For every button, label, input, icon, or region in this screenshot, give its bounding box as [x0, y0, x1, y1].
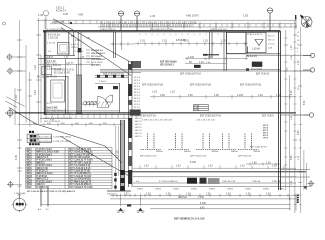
svg-text:TW 0.5x1: TW 0.5x1: [107, 193, 117, 195]
svg-text:VCB2-6 0.33 1.20: VCB2-6 0.33 1.20: [210, 29, 227, 31]
svg-text:VCT 0.5x0.33 A.BA x2: VCT 0.5x0.33 A.BA x2: [69, 151, 93, 154]
svg-text:VCT 7F-10F 0.33 (2): VCT 7F-10F 0.33 (2): [69, 157, 90, 159]
svg-text:1.63 0.33: 1.63 0.33: [48, 37, 59, 40]
dim line y43.5 ticks: [110, 42, 135, 46]
building top edge: [43, 31, 280, 32]
svg-text:WB2x6: WB2x6: [254, 151, 262, 153]
center wall lower right pair: [128, 115, 132, 187]
svg-text:5.46: 5.46: [291, 155, 293, 160]
dim line y96.8: [150, 95, 296, 99]
svg-text:1.60: 1.60: [214, 94, 219, 97]
building interior bottom line: [122, 171, 306, 173]
svg-text:VCT 0.33x0.5 7F A.BA: VCT 0.33x0.5 7F A.BA: [69, 186, 93, 189]
svg-text:1.33 1.26 1.33 1.20: 1.33 1.26 1.33 1.20: [196, 120, 216, 122]
svg-text:B2F VCB2-6VCF-(5): B2F VCB2-6VCF-(5): [240, 85, 261, 87]
svg-text:B2F VCB2-6VCF: B2F VCB2-6VCF: [250, 147, 267, 149]
svg-text:P-VCB 1.5: P-VCB 1.5: [37, 187, 49, 189]
corner line y191: [107, 190, 131, 192]
row of text under y71 line: [103, 74, 270, 76]
svg-text:SK 1.3: SK 1.3: [268, 40, 275, 42]
svg-text:B2F VCB2-6VCF-(5): B2F VCB2-6VCF-(5): [190, 85, 211, 87]
parking stall divider pair 3: [196, 134, 217, 150]
fixture blocks y87: [98, 86, 103, 89]
inner wall verticals: [65, 59, 67, 81]
hatch slashes near arcs: [85, 102, 112, 107]
bottom dim ticks: [113, 194, 296, 211]
building left wall: [44, 31, 46, 115]
svg-text:WC9: WC9: [27, 171, 33, 173]
svg-text:WC 1.5x0.33 MW-0.5 P-VCB 1.5 (: WC 1.5x0.33 MW-0.5 P-VCB 1.5 (7F-10F) A.…: [27, 190, 76, 193]
svg-text:5.195: 5.195: [200, 203, 206, 205]
svg-text:TWD1: TWD1: [245, 188, 252, 190]
svg-text:MW-0.5 1.5x0.5: MW-0.5 1.5x0.5: [37, 173, 54, 175]
main finish table: [26, 148, 112, 189]
svg-text:TWD1: TWD1: [227, 188, 234, 190]
text row above stubs: [142, 120, 216, 122]
svg-text:VCT 1.5x0.33 MW (2): VCT 1.5x0.33 MW (2): [69, 184, 92, 186]
svg-text:B2F VCB2-6VCF-(5): B2F VCB2-6VCF-(5): [142, 85, 163, 87]
svg-text:5.195: 5.195: [190, 162, 196, 164]
right wall: [279, 31, 281, 190]
small filled door rect: [194, 65, 201, 68]
svg-text:P-VCB 1.5x0.5: P-VCB 1.5x0.5: [37, 160, 53, 162]
parking stall divider pair 4: [216, 134, 237, 150]
svg-text:1.20 45: 1.20 45: [66, 63, 74, 65]
svg-text:1.33: 1.33: [170, 91, 175, 94]
svg-text:2.40: 2.40: [298, 130, 300, 135]
svg-text:1.33: 1.33: [272, 166, 277, 168]
svg-text:VCT 1.5x0.33 0.5 (2): VCT 1.5x0.33 0.5 (2): [69, 168, 91, 170]
text rows under upper-left block: [37, 69, 74, 79]
svg-text:TWD-18 VCB: TWD-18 VCB: [222, 181, 236, 183]
svg-text:1.04: 1.04: [199, 61, 204, 64]
grid bubble left C: [5, 108, 15, 118]
svg-text:1.33: 1.33: [166, 194, 171, 196]
long diagonal D2b: [60, 136, 129, 176]
svg-text:B1 KDS-0.6: B1 KDS-0.6: [91, 50, 104, 52]
middle horizontal line y71: [100, 70, 312, 72]
parking stall divider pair 2: [169, 134, 190, 150]
svg-text:1F 2.4: 1F 2.4: [134, 77, 141, 79]
far left tiny bubble: [3, 22, 6, 25]
svg-text:1.33: 1.33: [186, 194, 191, 196]
svg-text:2.625 1.05: 2.625 1.05: [52, 20, 65, 24]
svg-text:1.5 0.3: 1.5 0.3: [268, 44, 275, 46]
svg-text:VD2-25 NO.2: VD2-25 NO.2: [160, 65, 175, 67]
svg-text:8.40: 8.40: [200, 207, 205, 209]
wall block column x114: [114, 173, 117, 176]
svg-text:B2F VCB-6: B2F VCB-6: [262, 116, 274, 118]
svg-text:P-VCB 1.5x0.5: P-VCB 1.5x0.5: [37, 181, 53, 183]
svg-text:140 2.4: 140 2.4: [135, 130, 143, 132]
svg-text:1.80: 1.80: [252, 162, 257, 164]
svg-text:TWD1: TWD1: [278, 188, 285, 190]
svg-text:KD-8 25x25: KD-8 25x25: [91, 62, 103, 64]
svg-text:A2 0.33 FCx2: A2 0.33 FCx2: [39, 140, 53, 143]
svg-text:B2F VCB2-6VCF-18: B2F VCB2-6VCF-18: [200, 116, 222, 118]
svg-text:MW-0.5 1.5: MW-0.5 1.5: [37, 157, 50, 159]
svg-text:1.33: 1.33: [15, 95, 18, 100]
tick row under top edge mid: [140, 34, 218, 36]
dim line y42 with ticks: [135, 42, 248, 46]
north compass: [301, 17, 312, 28]
svg-text:7F 2.4: 7F 2.4: [134, 95, 141, 97]
svg-text:P-VCB 1.5x0.5: P-VCB 1.5x0.5: [37, 149, 53, 151]
svg-text:WCC: WCC: [27, 179, 33, 181]
counter column: [297, 32, 300, 54]
svg-text:1.40: 1.40: [258, 94, 263, 97]
svg-text:H 0.8: H 0.8: [194, 109, 198, 111]
svg-text:3F 2.4: 3F 2.4: [134, 83, 141, 85]
svg-text:( 1.5W ) 7F-10F(2): ( 1.5W ) 7F-10F(2): [53, 141, 71, 143]
svg-text:1.20: 1.20: [34, 65, 37, 70]
right chain dense ticks: [284, 38, 302, 205]
svg-text:TWD1: TWD1: [155, 188, 162, 190]
svg-text:VCT 1.5x0.33 7F-10F: VCT 1.5x0.33 7F-10F: [69, 176, 92, 178]
svg-text:8F 2.4: 8F 2.4: [134, 98, 141, 100]
dark sump block: [252, 62, 262, 67]
finish table header box: [27, 134, 51, 142]
svg-text:2.40: 2.40: [208, 56, 213, 59]
svg-text:TWD1: TWD1: [191, 188, 198, 190]
svg-text:4.05: 4.05: [291, 90, 293, 95]
grid bubble right A: [303, 53, 315, 57]
svg-text:2.40: 2.40: [34, 90, 37, 95]
upper-middle wall pair 1: [210, 32, 213, 58]
svg-text:1.33: 1.33: [203, 39, 208, 42]
bold tick left of compass: [295, 15, 297, 20]
fixture wall y76: [95, 76, 128, 78]
dim rows upper middle: [185, 57, 248, 64]
big door arc: [98, 97, 109, 108]
svg-text:8.40: 8.40: [304, 100, 306, 105]
text row above building edge: [47, 29, 227, 31]
upper-middle room 2 with triangle: [246, 33, 266, 53]
svg-text:FD 1.5x0.5: FD 1.5x0.5: [91, 56, 103, 58]
text under y113 line: [47, 111, 274, 118]
dense annotation column center-left: [91, 50, 106, 61]
svg-text:2.60: 2.60: [188, 94, 193, 97]
svg-text:1.33: 1.33: [266, 194, 271, 196]
wall dark blocks x120: [120, 170, 124, 175]
grid bubble left E: [7, 181, 22, 188]
svg-text:TWD1: TWD1: [209, 188, 216, 190]
svg-text:140 2.4: 140 2.4: [135, 127, 143, 129]
svg-text:0.5x1.5: 0.5x1.5: [71, 44, 79, 46]
svg-text:1.33: 1.33: [208, 166, 213, 168]
compass arrow: [300, 15, 304, 19]
center wall column upper: [128, 62, 132, 116]
grid bubble right D: [308, 180, 315, 187]
short diagonal A: [6, 97, 24, 107]
lower-left room rect: [51, 80, 65, 102]
survey stamp circle: [12, 196, 28, 212]
left end drop lines: [41, 186, 49, 207]
svg-text:1.33: 1.33: [226, 194, 231, 196]
svg-text:VCT 1.5x0.33 7F-10F: VCT 1.5x0.33 7F-10F: [69, 149, 92, 151]
svg-text:240 1.20: 240 1.20: [46, 63, 55, 65]
svg-text:WCA: WCA: [27, 172, 33, 175]
parking stall divider pair 5: [238, 134, 259, 150]
faint label row mid parking: [140, 156, 252, 158]
leader arrow dot: [70, 22, 72, 24]
svg-text:TWD-18: TWD-18: [272, 181, 281, 183]
lower-left walls: [46, 76, 68, 114]
svg-text:VD2 NO.5: VD2 NO.5: [91, 65, 102, 67]
room box left wall: [42, 67, 52, 75]
right extra chain lines: [304, 150, 307, 190]
svg-text:1.33: 1.33: [162, 39, 167, 42]
svg-text:( 1.5W ) 7F-10F(2): ( 1.5W ) 7F-10F(2): [53, 137, 71, 139]
bottom band lines: [133, 177, 296, 187]
top dimension tick row: [45, 13, 296, 31]
svg-text:1.33: 1.33: [146, 194, 151, 196]
svg-text:1.26: 1.26: [266, 162, 271, 164]
svg-text:VCB2-6 0.33 1.5: VCB2-6 0.33 1.5: [247, 34, 263, 36]
svg-text:140 2.4: 140 2.4: [135, 124, 143, 126]
top dimension lines: [37, 20, 296, 27]
center wall lower left pair: [121, 120, 125, 191]
door arcs scallops: [83, 101, 97, 104]
TWD labels row: [136, 181, 285, 191]
svg-text:WC2: WC2: [27, 152, 33, 154]
major grid line y113: [15, 112, 296, 114]
svg-text:MW-0.5: MW-0.5: [37, 184, 46, 186]
svg-text:2.60: 2.60: [160, 94, 165, 97]
svg-text:1.163: 1.163: [188, 56, 195, 59]
grid bubble right C: [303, 113, 314, 117]
svg-text:WB2x6: WB2x6: [184, 151, 192, 153]
svg-text:VCT MW 0.5x0.33 7F: VCT MW 0.5x0.33 7F: [69, 181, 92, 183]
svg-text:1.33: 1.33: [184, 39, 189, 42]
grid bubble top A: [43, 11, 48, 31]
line y64.3: [38, 63, 100, 66]
diagonal leader D1a: [53, 19, 133, 64]
bottom grid marker 1: [117, 208, 125, 213]
table top dim line: [22, 123, 122, 126]
svg-text:MW-0.5 (2): MW-0.5 (2): [37, 168, 49, 170]
finish table label 1: [29, 131, 31, 133]
svg-text:P-VCB 1.5x0.5: P-VCB 1.5x0.5: [37, 165, 53, 167]
svg-text:1.33: 1.33: [152, 91, 157, 94]
svg-text:5F 2.4: 5F 2.4: [134, 89, 141, 91]
wall x119.5: [119, 83, 121, 113]
svg-text:TWD1: TWD1: [137, 188, 144, 190]
divider labels: [156, 151, 261, 153]
svg-text:WCB: WCB: [27, 176, 33, 178]
svg-text:0.33 1.5: 0.33 1.5: [56, 8, 65, 10]
svg-text:0.30: 0.30: [63, 12, 69, 16]
svg-text:WC3: WC3: [27, 154, 33, 156]
svg-text:VCB2-6 1.33 0.5: VCB2-6 1.33 0.5: [100, 29, 116, 31]
svg-text:6F 2.4: 6F 2.4: [134, 92, 141, 94]
svg-text:1.33: 1.33: [298, 60, 300, 65]
svg-text:VCT 1.5x0.5 7F-10F x1: VCT 1.5x0.5 7F-10F x1: [69, 154, 94, 156]
upper-left annotation text: [47, 34, 80, 72]
svg-text:SEKISAI: SEKISAI: [178, 196, 187, 199]
svg-text:KAKU SUI 1.5x0.33 VCB 0.5: KAKU SUI 1.5x0.33 VCB 0.5: [44, 117, 73, 120]
svg-text:VD2-25xNO.5: VD2-25xNO.5: [91, 59, 106, 61]
svg-text:1.33: 1.33: [206, 194, 211, 196]
svg-text:140 2.4: 140 2.4: [135, 136, 143, 138]
vertical list text center: [135, 118, 143, 138]
svg-text:P-VCB (2): P-VCB (2): [37, 176, 48, 178]
bottom dimension lines: [41, 195, 296, 209]
svg-text:4.83: 4.83: [78, 13, 84, 17]
small table mid: [194, 105, 209, 111]
svg-text:1.33: 1.33: [38, 13, 44, 17]
svg-text:MW-0.5 1.5: MW-0.5 1.5: [37, 179, 50, 181]
svg-text:4.05: 4.05: [15, 155, 18, 160]
parking stall divider pair 1: [141, 134, 162, 150]
svg-text:1.62+M: 1.62+M: [252, 49, 260, 51]
upper wall x78-81: [78, 32, 81, 75]
line y53.8: [226, 53, 280, 55]
grid bubble left A: [6, 54, 26, 61]
svg-text:TWD1: TWD1: [263, 188, 270, 190]
svg-text:B2 1.5x0.33 FD: B2 1.5x0.33 FD: [54, 73, 70, 75]
line y55 right: [246, 54, 312, 56]
right rotated dim text: [291, 45, 306, 160]
svg-text:4.80 1/7(F): 4.80 1/7(F): [186, 14, 199, 18]
svg-text:PS 2.4 1.5: PS 2.4 1.5: [246, 55, 257, 58]
left dimension chain: [15, 18, 41, 207]
svg-text:5.195 1.33 1.33 1.20 1.33: 5.195 1.33 1.33 1.20 1.33 1.33: [142, 120, 173, 122]
svg-text:P-VCB 1.5: P-VCB 1.5: [37, 171, 49, 173]
svg-text:1.33: 1.33: [140, 39, 145, 42]
svg-text:7F1.5: 7F1.5: [263, 138, 269, 140]
svg-text:B2F VCB2 0.33 1.5 VCB: B2F VCB2 0.33 1.5 VCB: [150, 29, 173, 31]
dark text block right: [263, 125, 269, 140]
diagonal leader D1b: [61, 28, 131, 76]
svg-text:TWD1: TWD1: [173, 188, 180, 190]
svg-text:SK 1.3: SK 1.3: [268, 36, 275, 38]
svg-text:1.33: 1.33: [291, 45, 293, 50]
svg-text:1.33: 1.33: [221, 39, 226, 42]
upper-middle wall pair 2: [224, 32, 227, 71]
long diagonal D2a: [9, 108, 122, 164]
svg-text:WC1: WC1: [27, 149, 33, 151]
dark blob on line: [127, 204, 131, 206]
right dimension chains: [286, 20, 301, 213]
upper-left walls: [39, 32, 101, 59]
subdivision line y118 with ticks: [40, 117, 131, 119]
svg-text:WC4: WC4: [27, 156, 33, 159]
finish table label 2: [29, 143, 31, 145]
svg-text:WC5: WC5: [27, 160, 33, 162]
svg-text:1.33 1.20 1.33 1.26 1.33 1.20: 1.33 1.20 1.33 1.26 1.33 1.20 1.33 1.33 …: [100, 24, 192, 28]
svg-text:WC8: WC8: [27, 168, 33, 170]
grid bubble top C: [134, 11, 140, 31]
svg-text:1.33: 1.33: [150, 14, 156, 18]
svg-text:A1 0.33x0.33: A1 0.33x0.33: [39, 136, 53, 139]
svg-text:VCT 1.5x0.33 7F A.BA: VCT 1.5x0.33 7F A.BA: [69, 159, 93, 162]
dim text right half y92: [152, 91, 175, 94]
svg-text:4F 2.4: 4F 2.4: [134, 86, 141, 88]
svg-text:VCT 1.5x0.33 7F (2): VCT 1.5x0.33 7F (2): [69, 171, 90, 173]
svg-text:11 2.4: 11 2.4: [134, 107, 140, 109]
svg-text:1.33: 1.33: [124, 194, 129, 196]
svg-text:KOYA 2.4: KOYA 2.4: [56, 10, 67, 13]
svg-text:WB2x6: WB2x6: [156, 151, 164, 153]
svg-text:B2F HEIMEN ZU S=1:100: B2F HEIMEN ZU S=1:100: [174, 217, 205, 221]
svg-text:1.55: 1.55: [243, 14, 249, 18]
short diagonal B: [5, 101, 17, 108]
svg-text:B2 1.5x0.33 FD 0.5: B2 1.5x0.33 FD 0.5: [37, 77, 58, 79]
wall x249: [247, 47, 249, 54]
svg-text:1.5x0.5: 1.5x0.5: [99, 81, 107, 83]
grid bubble top B: [118, 11, 124, 31]
svg-text:B2F VD2-60x60: B2F VD2-60x60: [160, 62, 177, 64]
right chain ticks: [284, 35, 302, 183]
grid bubble left B: [7, 68, 27, 75]
svg-text:9' VCB2+6 BBS-18: 9' VCB2+6 BBS-18: [159, 181, 178, 183]
svg-text:WC7: WC7: [27, 165, 33, 167]
top band dense ticks: [55, 20, 291, 27]
svg-text:VCT 7F 0.33 MW-0.5: VCT 7F 0.33 MW-0.5: [69, 173, 91, 175]
right wall stubs: [281, 115, 310, 186]
svg-text:1.163: 1.163: [237, 94, 244, 97]
roof note text: [56, 8, 67, 13]
bottom grid marker 2: [137, 208, 145, 213]
svg-text:VCT 7F-10F 1.5x0.33: VCT 7F-10F 1.5x0.33: [69, 162, 92, 164]
svg-text:WCF: WCF: [27, 187, 33, 189]
svg-text:1.33: 1.33: [176, 166, 181, 168]
notes row above table: [44, 117, 73, 123]
svg-text:1.5x0.5 WC: 1.5x0.5 WC: [45, 106, 58, 109]
svg-text:10 2.4: 10 2.4: [134, 104, 141, 106]
mid annotation text right: [160, 62, 177, 67]
left chain ticks: [17, 35, 41, 168]
door arc single: [106, 95, 113, 102]
svg-text:1.5 0.5: 1.5 0.5: [45, 103, 52, 105]
grid bubble right B: [303, 68, 315, 72]
svg-text:B2F VCB2-6 0.33: B2F VCB2-6 0.33: [140, 156, 157, 158]
hatched wall block: [77, 75, 82, 114]
dark junction cluster: [131, 61, 141, 68]
right-lower dim line: [246, 163, 280, 166]
vertical text column beside wall: [134, 77, 141, 112]
left vertical dim text: [15, 65, 37, 160]
dim line y167: [133, 166, 296, 169]
svg-text:VCT 0.5 (7F)(10F)(2): VCT 0.5 (7F)(10F)(2): [69, 179, 91, 181]
svg-text:B2 VCB2-18 x0.33: B2 VCB2-18 x0.33: [47, 111, 67, 113]
svg-text:B2F VCB-18: B2F VCB-18: [256, 74, 270, 76]
svg-text:WC6: WC6: [27, 162, 33, 164]
svg-text:VCT 1.5 0.33x0.5 x2: VCT 1.5 0.33x0.5 x2: [69, 165, 91, 167]
svg-text:10 B2F-B1F A (T.3): 10 B2F-B1F A (T.3): [54, 69, 74, 72]
svg-text:MW-0.5: MW-0.5: [37, 162, 46, 164]
text smudges y84: [142, 85, 261, 87]
svg-text:B2F VCB2-6 0.33: B2F VCB2-6 0.33: [190, 156, 207, 158]
left chain extra ticks: [18, 80, 33, 205]
svg-text:140 2.4: 140 2.4: [135, 133, 143, 135]
svg-text:B2F VCB 0.33: B2F VCB 0.33: [238, 156, 252, 158]
svg-text:1.33: 1.33: [144, 166, 149, 168]
upper-left interior annotations: [47, 43, 84, 54]
svg-text:WCD: WCD: [27, 181, 33, 183]
upper wall x114: [113, 32, 121, 58]
svg-text:WB2x6: WB2x6: [212, 151, 220, 153]
svg-text:WB2x6: WB2x6: [231, 151, 239, 153]
upper-left room square: [58, 43, 70, 55]
grid bubble top D: [267, 8, 273, 31]
svg-text:9F 2.4: 9F 2.4: [134, 101, 141, 103]
vertical note text bottom right: [297, 195, 299, 204]
table right dim line: [115, 126, 117, 190]
svg-text:B2F VCB2-6VCF-18: B2F VCB2-6VCF-18: [103, 74, 125, 76]
svg-text:1.33: 1.33: [246, 194, 251, 196]
